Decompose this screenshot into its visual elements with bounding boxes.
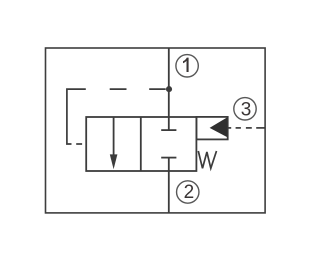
svg-text:3: 3 — [241, 99, 252, 120]
svg-text:2: 2 — [184, 182, 195, 203]
